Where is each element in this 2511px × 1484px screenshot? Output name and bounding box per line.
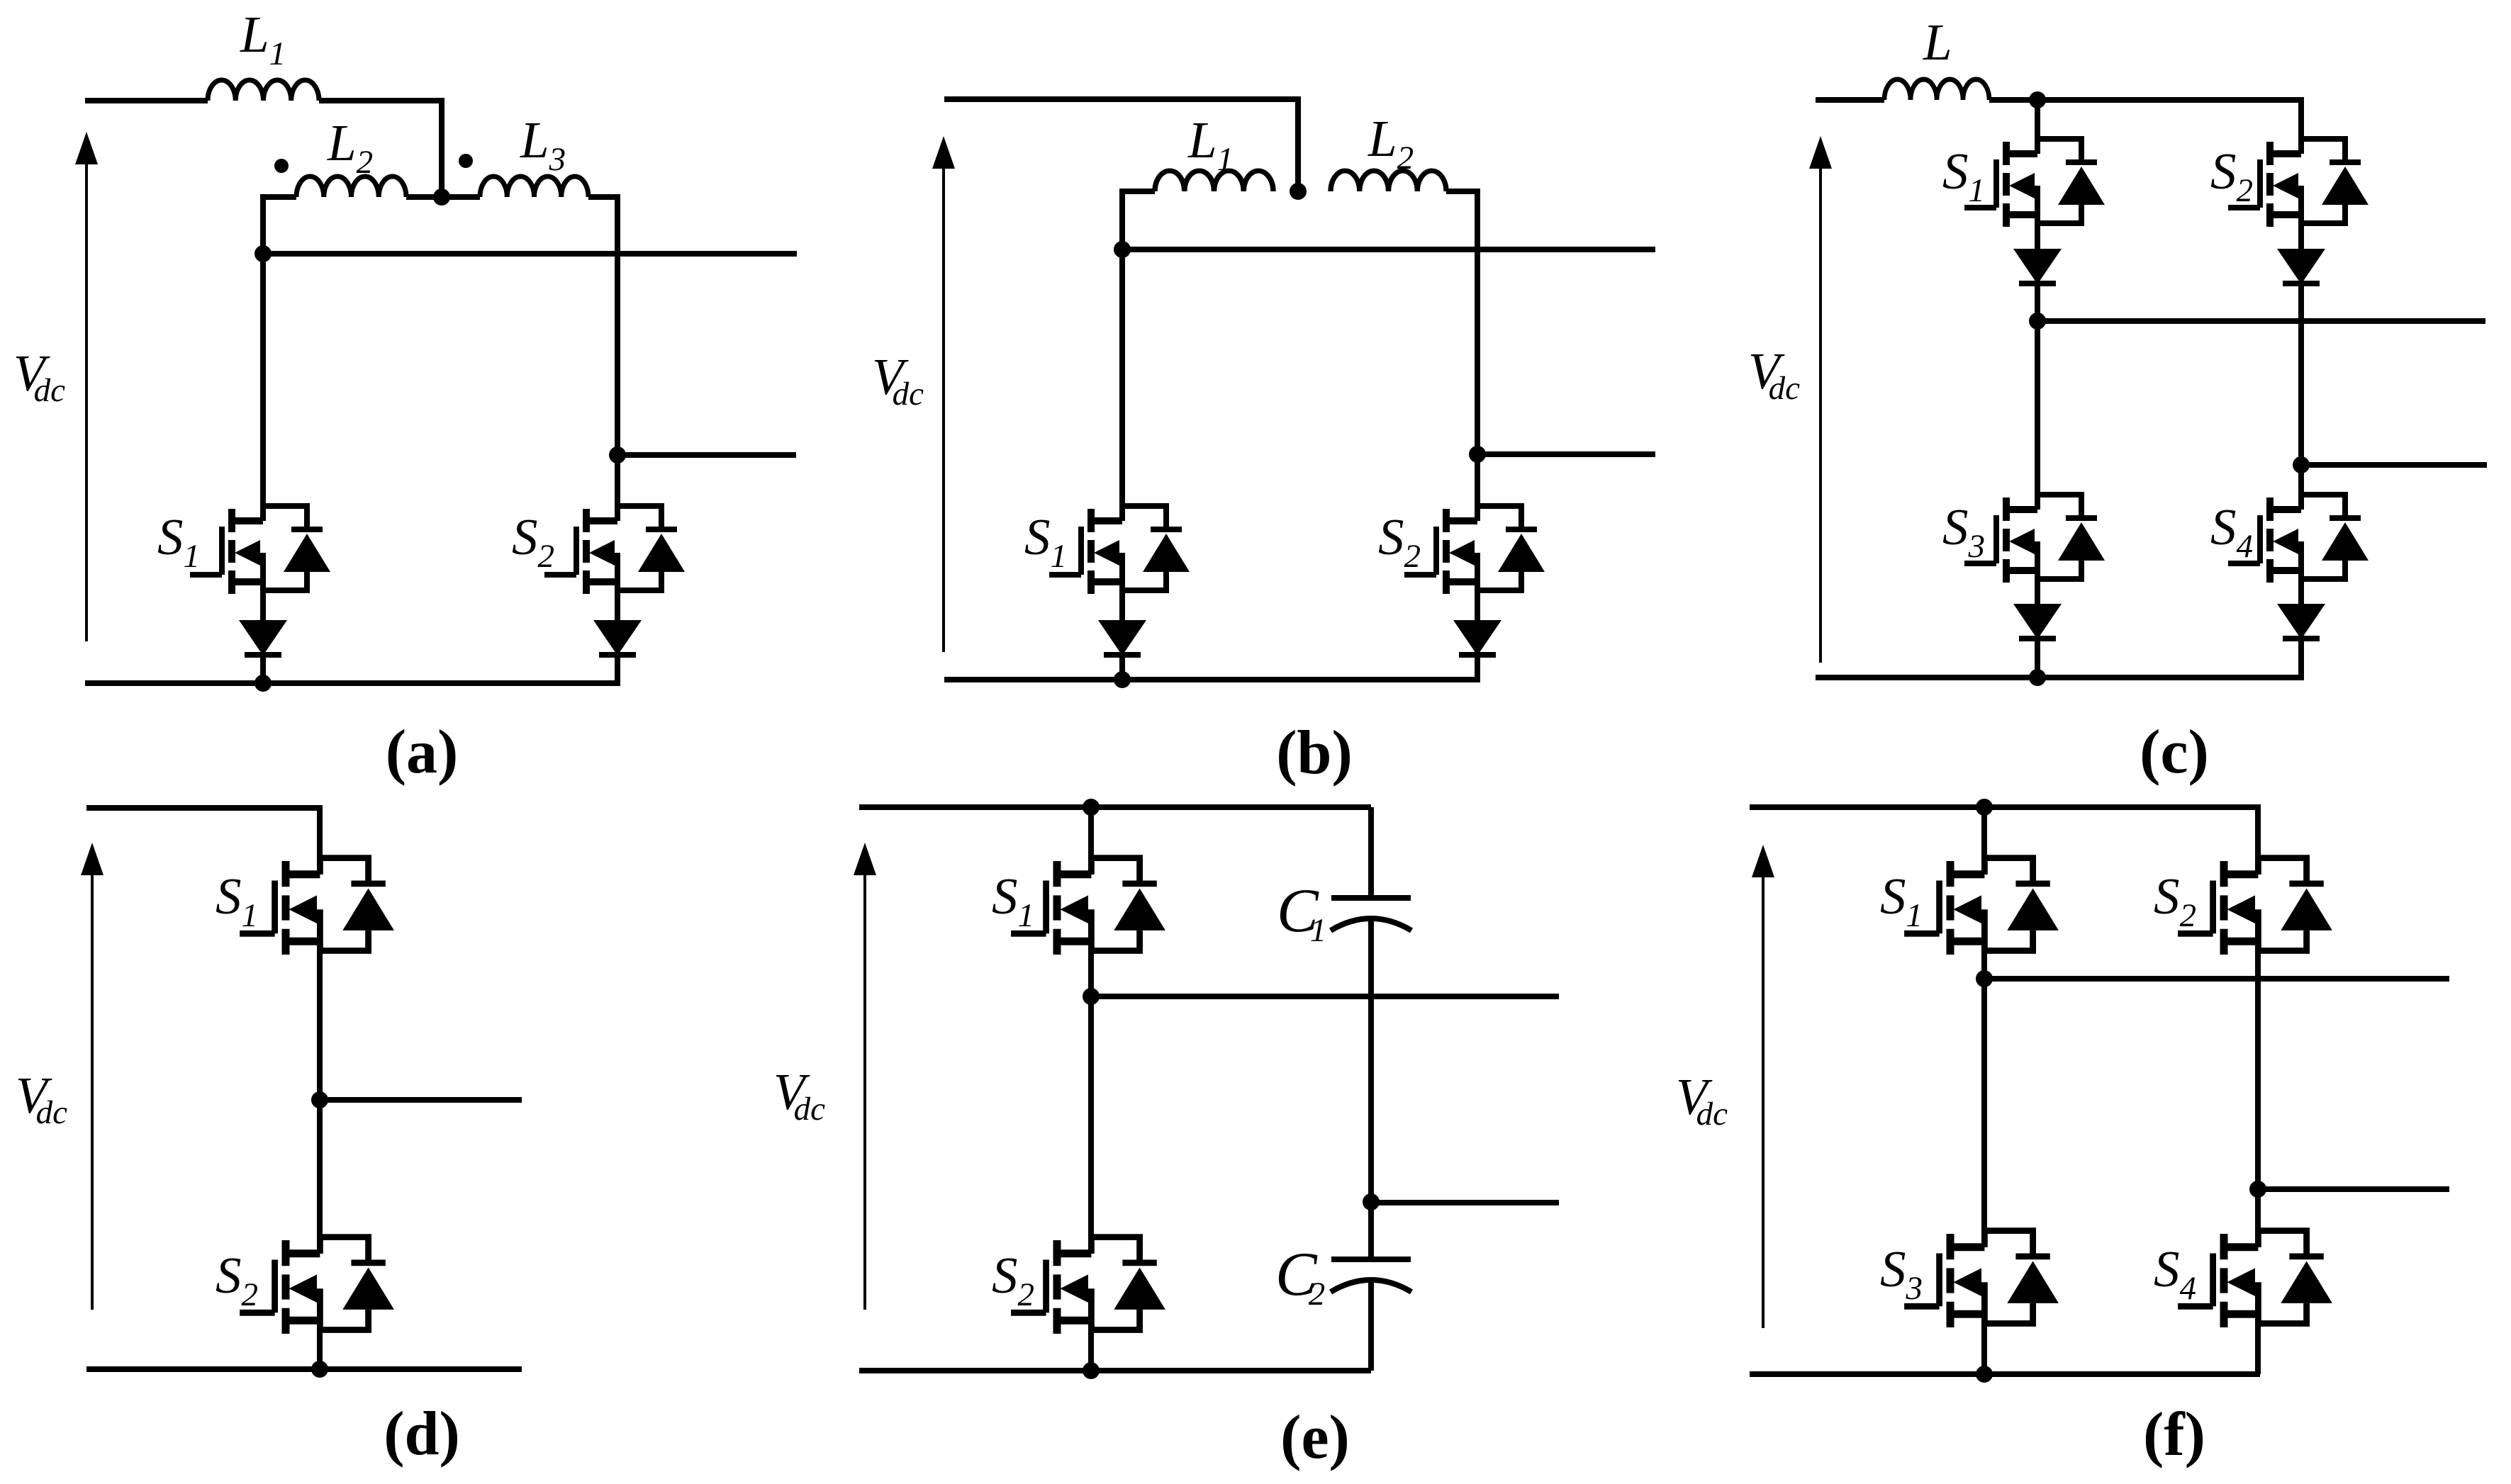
svg-text:(d): (d): [384, 1400, 460, 1468]
node c input node: [2029, 91, 2046, 108]
subcircuit (a): interleaved converter with coupled inductors: [13, 6, 797, 787]
svg-text:Vdc: Vdc: [13, 344, 65, 409]
node b output node 2: [1469, 446, 1486, 463]
svg-text:S1: S1: [1024, 508, 1067, 575]
wire a L3 right stub: [588, 194, 617, 200]
svg-text:S2: S2: [992, 1247, 1034, 1313]
wire a output line 1: [263, 251, 797, 257]
subcircuit (c): full-bridge current-source inverter: [1748, 13, 2487, 787]
svg-text:Vdc: Vdc: [773, 1063, 825, 1128]
svg-text:S2: S2: [2154, 867, 2196, 934]
svg-text:(c): (c): [2140, 718, 2209, 787]
wire f output line 2: [2258, 1186, 2449, 1192]
diode c D1: [2013, 249, 2062, 284]
wire d mid vertical: [317, 940, 323, 1254]
svg-text:S1: S1: [1880, 867, 1923, 934]
inductor L2: [296, 176, 406, 197]
wire c D2 down: [2298, 282, 2304, 465]
wire f output line 1: [1984, 976, 2449, 982]
wire c S3 drain: [2035, 321, 2040, 510]
polarity dot L2 dot: [274, 159, 289, 173]
transistor c S4 (MOSFET with body diode): [2228, 495, 2369, 583]
wire d output line: [320, 1097, 522, 1103]
svg-text:L2: L2: [327, 114, 373, 181]
wire e output line 1: [1091, 994, 1559, 999]
wire a top-left: [85, 98, 208, 103]
node e rail junction: [1083, 1362, 1100, 1379]
node a output node 1: [255, 245, 272, 262]
polarity dot L3 dot: [459, 154, 473, 168]
svg-text:S1: S1: [1942, 142, 1985, 209]
transistor e S2 (MOSFET with body diode): [1011, 1237, 1165, 1334]
wire a S2 source: [615, 582, 620, 621]
wire f S4 source: [2255, 1313, 2261, 1374]
transistor e S1 (MOSFET with body diode): [1011, 858, 1165, 955]
wire e cap branch upper: [1368, 807, 1374, 898]
wire c S3 source: [2035, 570, 2040, 604]
wire b L1 left stub: [1122, 189, 1155, 194]
subcircuit (e): half-bridge with split capacitors: [773, 799, 1559, 1472]
transistor S2 (MOSFET with body diode): [544, 506, 685, 594]
wire e S1 drain: [1088, 807, 1094, 875]
wire a right vertical: [615, 194, 620, 521]
svg-text:Vdc: Vdc: [1748, 342, 1800, 407]
voltage source arrow c Vdc: [1809, 136, 1832, 663]
inductor c L: [1884, 79, 1989, 100]
inductor b L2: [1331, 171, 1446, 191]
wire e bottom rail: [859, 1368, 1371, 1373]
diode D2: [593, 620, 642, 656]
svg-text:S1: S1: [157, 508, 200, 575]
wire c S2 drain: [2298, 97, 2304, 154]
wire c D3 to rail: [2035, 637, 2040, 678]
svg-text:C2: C2: [1275, 1240, 1325, 1312]
wire a mid stub: [406, 194, 480, 200]
wire e S1 source: [1088, 940, 1094, 996]
wire a output line 2: [617, 452, 796, 458]
wire e mid vertical: [1088, 996, 1094, 1254]
wire a L2 left stub: [263, 194, 296, 200]
wire c S1 source: [2035, 215, 2040, 249]
svg-text:L1: L1: [240, 6, 286, 72]
node f output node 2: [2249, 1181, 2266, 1198]
diode D1: [239, 620, 287, 656]
node c rail junction: [2029, 669, 2046, 686]
diode b D1: [1098, 620, 1146, 656]
wire d top rail: [86, 805, 323, 811]
transistor f S2 (MOSFET with body diode): [2178, 858, 2332, 955]
svg-text:S3: S3: [1880, 1240, 1923, 1307]
svg-text:L1: L1: [1187, 111, 1234, 178]
svg-text:S1: S1: [216, 867, 258, 934]
wire c S2 source: [2298, 215, 2304, 249]
wire a corner-down: [439, 98, 444, 197]
svg-text:S4: S4: [2210, 498, 2253, 565]
node d rail junction: [311, 1361, 328, 1378]
svg-text:C1: C1: [1277, 877, 1326, 949]
svg-text:(b): (b): [1276, 719, 1353, 787]
wire a S1 source: [260, 582, 266, 621]
wire d S2 source: [317, 1320, 323, 1369]
transistor d S1 (MOSFET with body diode): [240, 858, 394, 955]
wire f S1 drain: [1981, 807, 1987, 875]
voltage source arrow e Vdc: [854, 843, 876, 1310]
diode c D2: [2277, 249, 2325, 284]
capacitor C2: [1331, 1259, 1411, 1292]
wire b output line 2: [1477, 451, 1655, 457]
wire c top wire: [1989, 97, 2304, 103]
subcircuit (f): full-bridge voltage-source inverter: [1676, 799, 2449, 1469]
wire c bottom rail: [1816, 675, 2304, 680]
transistor c S3 (MOSFET with body diode): [1964, 495, 2105, 583]
svg-text:L2: L2: [1368, 110, 1414, 176]
wire b left vertical: [1119, 189, 1125, 521]
wire a D2 to rail: [615, 653, 620, 683]
node b junction: [1290, 183, 1307, 200]
wire f right mid vertical: [2255, 940, 2261, 1247]
wire f left mid vertical: [1981, 940, 1987, 1247]
voltage source arrow b Vdc: [932, 136, 955, 652]
wire c S4 source: [2298, 570, 2304, 604]
wire d bottom rail: [86, 1366, 522, 1372]
svg-text:Vdc: Vdc: [872, 348, 924, 412]
wire a left vertical: [260, 194, 266, 521]
node b output node 1: [1114, 241, 1131, 258]
wire f bottom rail: [1750, 1371, 2260, 1377]
transistor b S1 (MOSFET with body diode): [1049, 506, 1190, 594]
node c output node 2: [2293, 456, 2310, 473]
wire b D1 to rail: [1119, 653, 1125, 680]
svg-text:S2: S2: [2210, 142, 2253, 209]
wire c D4 to rail: [2298, 637, 2304, 678]
wire a D1 to rail: [260, 653, 266, 683]
wire c output line 2: [2301, 462, 2487, 468]
wire f top rail: [1750, 804, 2258, 810]
wire d S1 drain: [317, 808, 323, 875]
wire e cap branch mid: [1368, 919, 1374, 1259]
transistor f S1 (MOSFET with body diode): [1904, 858, 2059, 955]
inductor b L1: [1155, 171, 1273, 191]
wire e output line 2: [1371, 1200, 1559, 1205]
svg-text:S1: S1: [992, 867, 1034, 934]
transistor c S2 (MOSFET with body diode): [2228, 139, 2369, 227]
node a junction L1-L2-L3: [433, 189, 450, 206]
svg-text:S2: S2: [1378, 508, 1421, 575]
node b rail junction: [1114, 671, 1131, 688]
wire a bottom rail: [85, 680, 620, 686]
inductor L1: [208, 80, 319, 101]
node a rail junction: [255, 675, 272, 692]
node c output node 1: [2029, 313, 2046, 330]
node e output node 1: [1083, 988, 1100, 1005]
wire a L1-to-corner: [319, 98, 444, 103]
wire b D2 to rail: [1475, 653, 1480, 680]
wire b S1 source: [1119, 582, 1125, 621]
inductor L3: [480, 176, 588, 197]
svg-text:(a): (a): [386, 718, 459, 787]
node f output node 1: [1976, 970, 1993, 987]
wire c D1 down: [2035, 282, 2040, 321]
node e cap midpoint: [1363, 1193, 1380, 1210]
wire b output line 1: [1122, 247, 1655, 252]
voltage source arrow f Vdc: [1752, 845, 1774, 1328]
wire b corner-down: [1295, 99, 1301, 191]
wire c top-left: [1816, 97, 1884, 103]
svg-text:L: L: [1923, 13, 1952, 71]
transistor S1 (MOSFET with body diode): [190, 506, 330, 594]
diode b D2: [1453, 620, 1501, 656]
wire f S2 drain: [2255, 804, 2261, 875]
wire e cap branch lower: [1368, 1281, 1374, 1371]
wire b L2 right stub: [1446, 189, 1477, 194]
diode c D3: [2013, 604, 2062, 639]
wire b top wire: [944, 96, 1301, 102]
wire b right vertical: [1475, 189, 1480, 521]
transistor c S1 (MOSFET with body diode): [1964, 139, 2105, 227]
subcircuit (b): two-phase interleaved converter: [872, 99, 1655, 787]
diode c D4: [2277, 604, 2325, 639]
wire e top rail: [859, 804, 1371, 810]
transistor b S2 (MOSFET with body diode): [1404, 506, 1545, 594]
wire b S2 source: [1475, 582, 1480, 621]
node f rail junction: [1976, 1366, 1993, 1383]
node a output node 2: [609, 446, 626, 463]
wire c S4 drain: [2298, 465, 2304, 510]
capacitor C1: [1331, 898, 1411, 931]
svg-text:S4: S4: [2154, 1240, 2196, 1307]
svg-text:L3: L3: [520, 111, 566, 178]
wire c output line 1: [2037, 318, 2485, 324]
svg-text:Vdc: Vdc: [16, 1067, 67, 1131]
node f top junction: [1976, 799, 1993, 816]
svg-text:Vdc: Vdc: [1676, 1068, 1728, 1132]
svg-text:(e): (e): [1280, 1403, 1350, 1472]
node e top junction: [1083, 799, 1100, 816]
wire e S2 source: [1088, 1320, 1094, 1371]
transistor d S2 (MOSFET with body diode): [240, 1237, 394, 1334]
svg-text:S2: S2: [512, 508, 554, 575]
wire b bottom rail: [944, 677, 1480, 682]
transistor f S3 (MOSFET with body diode): [1904, 1231, 2059, 1327]
subcircuit (d): half-bridge leg: [16, 808, 522, 1468]
svg-text:S3: S3: [1942, 498, 1985, 565]
wire c S1 drain: [2035, 100, 2040, 154]
wire f S3 source: [1981, 1313, 1987, 1374]
transistor f S4 (MOSFET with body diode): [2178, 1231, 2332, 1327]
svg-text:S2: S2: [216, 1247, 258, 1313]
node d output node: [311, 1091, 328, 1108]
svg-text:(f): (f): [2143, 1400, 2205, 1469]
voltage source arrow a Vdc: [75, 132, 98, 641]
voltage source arrow d Vdc: [81, 843, 104, 1310]
